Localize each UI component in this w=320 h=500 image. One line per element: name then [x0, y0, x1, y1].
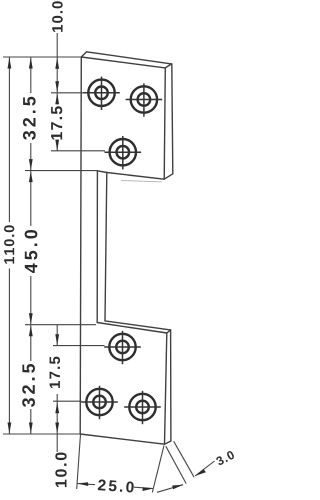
- plate bottom-right depth edge: [165, 441, 171, 444]
- dimension 3.0 extension B: [174, 441, 194, 477]
- plate left edge: [80, 57, 81, 434]
- extension line hole row 4: [53, 400, 82, 402]
- dimension 10.0 top line: [56, 33, 58, 92]
- dimension 3.0 extension A: [166, 446, 186, 483]
- bottom plate front right edge: [165, 333, 167, 444]
- hole H4: [104, 331, 141, 364]
- plate front top edge: [81, 57, 165, 68]
- dimension 17.5 bottom text: [50, 357, 60, 388]
- dimension 17.5 bottom upper stub: [56, 325, 58, 346]
- top plate back right edge: [172, 64, 173, 174]
- dimension 32.5 bottom text: [22, 364, 35, 407]
- plate back top edge: [87, 52, 172, 64]
- dimension 32.5 top line: [30, 58, 32, 94]
- dimension 32.5 top text: [23, 97, 36, 140]
- plate top-left depth edge: [81, 52, 86, 57]
- dimension 25.0 left extension: [77, 434, 81, 489]
- neck right front vertical: [96, 171, 98, 323]
- bottom plate back right edge: [170, 330, 172, 441]
- dimension 32.5 bottom line: [30, 325, 32, 361]
- top plate front right edge: [164, 68, 165, 179]
- top plate bottom cut edge: [97, 171, 172, 179]
- dimension 3.0 left leader with arrow: [157, 485, 183, 493]
- dimension 25.0 line: [77, 484, 95, 485]
- dimension 25.0 text: [98, 479, 134, 492]
- dimension 45.0 text: [25, 230, 38, 273]
- hole H1: [83, 77, 120, 110]
- dimension 10.0 bottom line: [56, 394, 58, 452]
- bottom plate top back edge: [105, 321, 171, 330]
- dimension 10.0 bottom text: [55, 453, 66, 488]
- plate bottom edge: [80, 434, 164, 444]
- extension line bottom step: [25, 324, 96, 326]
- hidden cut edge faint: [121, 180, 162, 182]
- extension line hole row 2: [51, 150, 105, 152]
- dimension 110.0 line: [8, 58, 10, 223]
- dimension 3.0 right leader with arrow: [195, 461, 214, 476]
- hole H5: [81, 386, 118, 419]
- extension line top edge: [3, 56, 81, 58]
- dimension 3.0 text: [215, 450, 235, 466]
- hole H2: [126, 83, 163, 116]
- dimension 25.0 right extension: [152, 446, 164, 493]
- dimension 10.0 top text: [52, 1, 63, 32]
- hole H3: [105, 136, 142, 169]
- hole H6: [124, 391, 161, 424]
- bottom plate top front edge: [97, 323, 167, 334]
- dimension 17.5 top line: [56, 93, 58, 104]
- extension line bottom edge: [3, 433, 81, 435]
- dimension 45.0 line: [30, 171, 32, 226]
- extension line hole row 1: [51, 92, 85, 94]
- dimension 110.0 text: [4, 225, 14, 263]
- extension line hole row 3: [53, 345, 105, 347]
- neck right back vertical: [105, 172, 107, 321]
- dimension 17.5 top text: [51, 106, 62, 139]
- plate top-right depth edge: [165, 64, 171, 68]
- extension line top step: [25, 170, 97, 172]
- bottom plate top-right depth edge: [167, 330, 171, 333]
